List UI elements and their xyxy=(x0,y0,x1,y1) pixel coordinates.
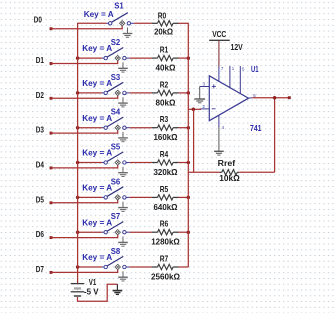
svg-text:Key = A: Key = A xyxy=(82,43,112,53)
junction bus/R2 xyxy=(187,91,191,95)
svg-text:U1: U1 xyxy=(251,65,259,74)
switch S4 (SPDT, Key = A) xyxy=(82,107,129,131)
svg-text:R1: R1 xyxy=(160,46,169,55)
junction rail/S2 xyxy=(76,56,80,60)
wire S3 to R2 xyxy=(130,92,152,94)
svg-text:Key = A: Key = A xyxy=(82,113,112,123)
ground (S3) xyxy=(118,97,128,107)
wire -5V rail to S5 pole xyxy=(78,162,102,164)
svg-text:S8: S8 xyxy=(111,246,121,256)
ground (S2) xyxy=(118,62,128,72)
ground (V1) xyxy=(113,284,123,294)
node D2 xyxy=(36,90,53,100)
svg-text:R6: R6 xyxy=(160,220,169,229)
svg-text:Rref: Rref xyxy=(218,159,236,168)
svg-text:S2: S2 xyxy=(111,37,121,47)
svg-text:D7: D7 xyxy=(36,264,44,274)
switch S7 (SPDT, Key = A) xyxy=(82,211,129,235)
svg-text:R3: R3 xyxy=(160,115,169,124)
node D1 xyxy=(36,55,53,65)
wire D7 to switch throw xyxy=(51,269,118,272)
power VCC 12V xyxy=(209,30,243,52)
node D0 xyxy=(34,15,53,30)
svg-text:D5: D5 xyxy=(36,194,44,204)
svg-text:Key = A: Key = A xyxy=(82,183,112,193)
svg-text:Key = A: Key = A xyxy=(82,252,112,262)
wire -5V rail to S4 pole xyxy=(78,127,102,129)
junction rail/S3 xyxy=(76,91,80,95)
wire R3 to summing bus xyxy=(179,127,189,129)
node D4 xyxy=(36,160,53,170)
wire R7 to summing bus xyxy=(179,266,189,268)
wire bus to inverting input xyxy=(188,108,201,110)
wire Rref to output xyxy=(239,98,274,173)
junction inverting node xyxy=(192,108,196,112)
wire S4 to R3 xyxy=(130,127,152,129)
svg-text:Key = A: Key = A xyxy=(82,217,112,227)
wire D2 to switch throw xyxy=(51,95,118,98)
junction bus/R4 xyxy=(187,161,191,165)
wire VCC to pin 7 xyxy=(218,41,220,66)
wire D3 to switch throw xyxy=(51,130,118,133)
resistor R6 1280kΩ xyxy=(151,220,180,247)
svg-text:R0: R0 xyxy=(158,12,167,21)
wire R2 to summing bus xyxy=(179,92,189,94)
wire D5 to switch throw xyxy=(51,200,118,203)
wire R6 to summing bus xyxy=(179,231,189,233)
switch S5 (SPDT, Key = A) xyxy=(82,142,129,166)
svg-text:R5: R5 xyxy=(160,185,169,194)
switch S1 (SPDT, Key = A) xyxy=(84,0,134,26)
svg-text:R2: R2 xyxy=(160,80,169,89)
op-amp U1 741 xyxy=(200,65,262,133)
svg-text:640kΩ: 640kΩ xyxy=(154,203,178,212)
junction bus/R5 xyxy=(187,196,191,200)
ground (S5) xyxy=(118,167,128,177)
svg-text:S4: S4 xyxy=(111,107,121,117)
resistor R2 80kΩ xyxy=(152,80,179,107)
svg-text:D3: D3 xyxy=(36,125,44,135)
svg-text:D0: D0 xyxy=(34,15,42,25)
svg-text:R7: R7 xyxy=(160,254,169,263)
wire D1 to switch throw xyxy=(51,61,118,64)
svg-text:12V: 12V xyxy=(231,43,244,52)
svg-text:S6: S6 xyxy=(111,176,121,186)
wire feedback down xyxy=(193,109,195,172)
svg-text:1280kΩ: 1280kΩ xyxy=(151,238,180,247)
node D7 xyxy=(36,264,53,274)
wire -5V rail to S2 pole xyxy=(78,57,102,59)
junction rail/S7 xyxy=(76,230,80,234)
svg-text:D4: D4 xyxy=(36,160,44,170)
wire D6 to switch throw xyxy=(51,235,118,238)
svg-text:D1: D1 xyxy=(36,55,44,65)
wire V1 negative to ground xyxy=(78,284,118,301)
wire -5V rail to S8 pole xyxy=(78,266,102,268)
wire S2 to R1 xyxy=(130,57,152,59)
wire -5V rail to S7 pole xyxy=(78,231,102,233)
svg-text:10kΩ: 10kΩ xyxy=(219,174,240,183)
svg-text:S3: S3 xyxy=(111,72,121,82)
wire bus to Rref xyxy=(188,171,220,173)
svg-text:80kΩ: 80kΩ xyxy=(156,98,176,107)
ground (S6) xyxy=(118,202,128,212)
wire D0 to switch throw xyxy=(51,26,122,29)
junction bus/R6 xyxy=(187,230,191,234)
wire R4 to summing bus xyxy=(179,162,189,164)
wire -5V rail to S3 pole xyxy=(78,92,102,94)
wire S7 to R6 xyxy=(130,231,152,233)
ground (S4) xyxy=(118,132,128,142)
battery V1 -5V xyxy=(71,277,99,296)
svg-text:20kΩ: 20kΩ xyxy=(154,28,173,37)
ground (S1) xyxy=(123,28,133,38)
wire R5 to summing bus xyxy=(179,196,189,198)
junction output/feedback xyxy=(273,96,277,100)
svg-text:S5: S5 xyxy=(111,142,121,152)
junction rail/S6 xyxy=(76,196,80,200)
wire output xyxy=(252,97,289,99)
junction rail/S8 xyxy=(76,265,80,269)
resistor R7 2560kΩ xyxy=(151,254,180,281)
switch S8 (SPDT, Key = A) xyxy=(82,246,129,270)
svg-text:VCC: VCC xyxy=(212,30,226,39)
wire S8 to R7 xyxy=(130,266,152,268)
node output end xyxy=(288,96,291,99)
svg-text:320kΩ: 320kΩ xyxy=(154,168,178,177)
svg-text:-5 V: -5 V xyxy=(84,286,99,296)
ground (op-amp + input) xyxy=(194,87,205,103)
svg-text:S7: S7 xyxy=(111,211,121,221)
resistor Rref 10k xyxy=(218,159,241,183)
wire S1 to R0 xyxy=(134,22,152,24)
wire S6 to R5 xyxy=(130,196,152,198)
svg-text:Key = A: Key = A xyxy=(84,9,114,19)
svg-text:741: 741 xyxy=(250,124,262,133)
svg-text:D6: D6 xyxy=(36,229,44,239)
resistor R4 320kΩ xyxy=(152,150,179,177)
wire R0 to summing bus xyxy=(179,22,189,24)
wire -5V rail to S1 pole xyxy=(78,22,107,24)
switch S6 (SPDT, Key = A) xyxy=(82,176,129,200)
switch S3 (SPDT, Key = A) xyxy=(82,72,129,96)
junction bus/R1 xyxy=(187,56,191,60)
wire D4 to switch throw xyxy=(51,165,118,168)
wire R1 to summing bus xyxy=(179,57,189,59)
svg-text:Key = A: Key = A xyxy=(82,78,112,88)
junction bus/R3 xyxy=(187,126,191,130)
svg-text:R4: R4 xyxy=(160,150,169,159)
ground (S8) xyxy=(118,271,128,281)
svg-text:160kΩ: 160kΩ xyxy=(154,133,178,142)
ground (S7) xyxy=(118,236,128,246)
ground (op-amp pin 4) xyxy=(214,127,224,155)
node D3 xyxy=(36,125,53,135)
svg-text:S1: S1 xyxy=(114,0,124,10)
resistor R1 40kΩ xyxy=(152,46,179,73)
resistor R0 20kΩ xyxy=(152,12,179,37)
resistor R5 640kΩ xyxy=(152,185,179,212)
wire S5 to R4 xyxy=(130,162,152,164)
junction rail/S5 xyxy=(76,161,80,165)
node D5 xyxy=(36,194,53,204)
summing bus (vertical) xyxy=(187,23,189,267)
svg-text:D2: D2 xyxy=(36,90,44,100)
wire -5V rail to S6 pole xyxy=(78,196,102,198)
svg-text:Key = A: Key = A xyxy=(82,148,112,158)
svg-text:40kΩ: 40kΩ xyxy=(156,64,176,73)
net -5V rail (vertical) xyxy=(77,23,79,284)
switch S2 (SPDT, Key = A) xyxy=(82,37,129,61)
node D6 xyxy=(36,229,53,239)
resistor R3 160kΩ xyxy=(152,115,179,142)
junction rail/S4 xyxy=(76,126,80,130)
svg-text:2560kΩ: 2560kΩ xyxy=(151,272,180,281)
